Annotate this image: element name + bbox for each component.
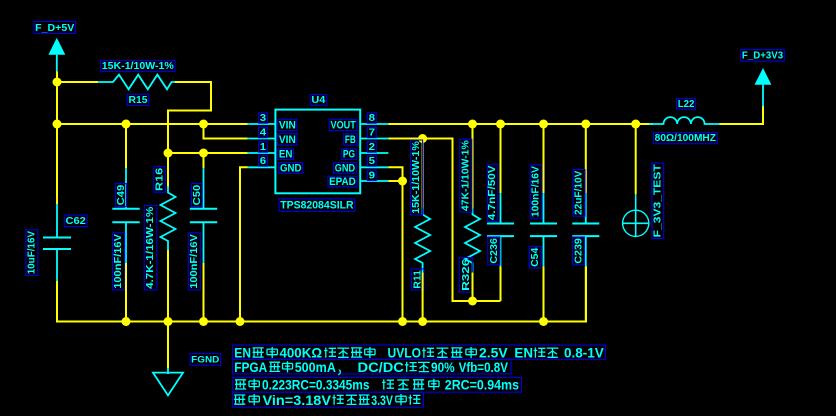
resistor R11 body: [415, 209, 430, 273]
svg-text:R326: R326: [460, 259, 472, 291]
value label 4.7nF/50V: [487, 164, 498, 221]
value label 22uF/10V: [573, 170, 585, 217]
svg-text:500mA: 500mA: [295, 359, 336, 375]
power net label F_D+3V3: [741, 50, 785, 62]
resistor R15 body: [98, 75, 175, 90]
net label F_3V3_TEST: [652, 163, 664, 239]
capacitor C49 body: [112, 168, 139, 263]
svg-text:VIN: VIN: [279, 134, 296, 146]
svg-text:Vin=3.18V: Vin=3.18V: [263, 392, 332, 408]
junction bus/C49: [122, 317, 131, 326]
wire C49 bottom: [125, 263, 127, 322]
ref label C54: [529, 247, 541, 269]
value label 47K-1/10W-1%: [460, 139, 472, 212]
junction VIN/C49: [122, 120, 131, 129]
svg-text:2: 2: [369, 142, 376, 153]
svg-text:4.7K-1/16W-1%: 4.7K-1/16W-1%: [145, 207, 156, 289]
junction VOUT/testpoint-L22: [631, 120, 640, 129]
pin 4 stub: [247, 138, 275, 140]
wire testpoint drop: [635, 124, 637, 194]
wire VIN net to pin 3: [57, 123, 248, 125]
net label FGND: [190, 354, 221, 366]
pin number 6: [259, 156, 268, 167]
ground FGND symbol: [153, 368, 183, 395]
wire C54 bottom: [543, 266, 545, 321]
junction EN/C50: [199, 149, 208, 158]
svg-text:R16: R16: [154, 168, 166, 191]
svg-text:EPAD: EPAD: [329, 176, 356, 188]
junction VOUT/C54: [539, 120, 548, 129]
svg-text:47K-1/10W-1%: 47K-1/10W-1%: [460, 140, 471, 211]
svg-text:EN: EN: [279, 149, 293, 161]
pin 5 stub: [360, 166, 388, 168]
note text line 2 FPGA estimate: [233, 359, 511, 375]
ref label L22: [677, 98, 696, 110]
svg-text:F_D+3V3: F_D+3V3: [742, 50, 783, 62]
wire R16 bottom to ground bus and FGND drop: [167, 250, 169, 369]
svg-text:FB: FB: [345, 134, 356, 146]
svg-text:4: 4: [260, 128, 267, 139]
junction bus/R11: [418, 317, 427, 326]
svg-text:C239: C239: [572, 238, 584, 264]
pin name EPAD: [328, 176, 357, 188]
pin name VOUT: [329, 119, 357, 131]
ref label C50: [191, 184, 203, 207]
pin number 5: [367, 156, 376, 167]
wire pin 4 jog: [204, 124, 248, 139]
power net label F_D+5V: [34, 22, 76, 34]
svg-text:FPGA: FPGA: [234, 359, 267, 375]
part label TPS82084SILR: [279, 199, 355, 212]
pin number 7: [367, 127, 376, 138]
svg-text:4.7nF/50V: 4.7nF/50V: [487, 165, 498, 220]
wire R11 bottom: [422, 273, 424, 322]
svg-text:PG: PG: [343, 149, 355, 161]
resistor R326 body: [465, 209, 480, 273]
junction bus/C54: [539, 317, 548, 326]
op-amp U1 — IC U4 TPS82084SILR box: [275, 110, 360, 194]
pin name PG: [342, 149, 357, 161]
wire EN net to pin 1: [168, 152, 248, 154]
pin 2 stub PG: [360, 152, 388, 154]
capacitor C236 body: [487, 193, 514, 266]
junction bus/R16: [164, 317, 173, 326]
svg-text:DC/DC: DC/DC: [358, 359, 404, 375]
wire C49 top: [125, 124, 127, 168]
svg-text:C49: C49: [115, 185, 127, 206]
wire ground bus bottom: [57, 266, 586, 321]
svg-text:100nF/16V: 100nF/16V: [189, 234, 200, 289]
pin name EN: [278, 149, 294, 161]
svg-text:3: 3: [260, 113, 267, 124]
pin number 1: [259, 142, 268, 153]
note text line 3 soft-start timing: [233, 377, 522, 393]
pin name GND (6): [279, 162, 303, 174]
wire VOUT bus: [388, 123, 653, 125]
wire C236 bottom: [500, 266, 502, 301]
svg-text:F_3V3_TEST: F_3V3_TEST: [652, 164, 663, 237]
wire C54 top: [543, 124, 545, 193]
junction EN/R16: [164, 149, 173, 158]
ref label R11: [411, 269, 423, 290]
junction VOUT/C239: [581, 120, 590, 129]
junction VIN/pin4 jog: [199, 120, 208, 129]
wire pin 9 EPAD: [388, 180, 402, 182]
svg-text:U4: U4: [311, 94, 325, 106]
value label C50 100nF/16V: [188, 233, 200, 290]
pin number 3: [259, 113, 268, 124]
pin name VIN (4): [278, 134, 297, 146]
value label 4.7K-1/16W-1%: [144, 206, 157, 291]
svg-text:5: 5: [369, 156, 376, 167]
ref label C239: [572, 237, 584, 265]
junction bus/C50: [199, 317, 208, 326]
note text line 1 EN/UVLO thresholds: [232, 345, 605, 361]
wire C239 top: [585, 124, 587, 193]
capacitor C62 body: [43, 204, 71, 281]
svg-text:9: 9: [369, 170, 376, 181]
pin 6 stub: [247, 166, 275, 168]
wire R11 top: [422, 139, 424, 209]
svg-text:EN: EN: [514, 345, 533, 361]
svg-text:3.3V: 3.3V: [371, 392, 393, 408]
svg-text:90%: 90%: [431, 359, 455, 375]
junction VOUT/R326: [468, 120, 477, 129]
wire C236 top: [500, 124, 502, 193]
svg-text:100nF/16V: 100nF/16V: [531, 166, 542, 217]
svg-text:8: 8: [369, 113, 376, 124]
junction bus/EPAD: [398, 317, 407, 326]
ref label R16: [154, 167, 166, 193]
svg-text:R15: R15: [129, 94, 148, 106]
power symbol F_D+3V3 arrow: [755, 68, 772, 106]
svg-text:VOUT: VOUT: [331, 119, 357, 131]
ref label C62: [64, 215, 87, 227]
svg-text:10uF/16V: 10uF/16V: [26, 231, 37, 275]
svg-text:L22: L22: [678, 98, 695, 110]
junction rail/R15: [53, 78, 62, 87]
wire R15 left lead: [57, 81, 98, 83]
wire FB net: [388, 139, 500, 302]
svg-text:2RC=0.94ms: 2RC=0.94ms: [445, 377, 519, 393]
svg-text:7: 7: [369, 128, 376, 139]
wire C239 bottom riser: [585, 266, 587, 321]
testpoint F_3V3_TEST symbol: [622, 194, 649, 237]
svg-text:0.8-1V: 0.8-1V: [564, 345, 604, 361]
wire R16 top: [167, 153, 169, 187]
pin name FB: [344, 134, 357, 146]
svg-text:FGND: FGND: [191, 354, 219, 365]
wire pin 6 to ground bus: [240, 167, 248, 321]
junction FBlow/R326: [468, 297, 477, 306]
pin number 8: [367, 113, 376, 124]
value label 80R/100MHZ: [654, 133, 718, 145]
junction VOUT/C236: [496, 120, 505, 129]
ref label R15: [127, 94, 148, 106]
junction FB/R11: [418, 134, 427, 143]
wire C50 bottom: [203, 263, 205, 322]
svg-text:C50: C50: [191, 185, 203, 206]
svg-text:Vfb=0.8V: Vfb=0.8V: [459, 359, 509, 375]
pin number 2: [367, 142, 376, 153]
svg-text:C54: C54: [529, 248, 541, 267]
capacitor C50 body: [190, 168, 217, 263]
ref label C49: [115, 184, 127, 207]
svg-text:80Ω/100MHZ: 80Ω/100MHZ: [655, 133, 716, 144]
power symbol F_D+5V arrow: [48, 38, 65, 72]
value label C49 100nF/16V: [113, 233, 125, 290]
wire L22 to +3V3 flag: [720, 106, 764, 124]
ref label U4: [310, 94, 326, 106]
value label 15K-1/10W-1%: [101, 60, 175, 72]
capacitor C239 body: [572, 193, 599, 266]
pin name GND (5): [334, 162, 357, 174]
pin 1 stub: [247, 152, 275, 154]
svg-text:15K-1/10W-1%: 15K-1/10W-1%: [411, 141, 422, 214]
wire pin 5 GND down: [388, 167, 402, 181]
pin 7 stub: [360, 138, 388, 140]
value label C54 100nF/16V: [530, 165, 542, 219]
svg-text:C236: C236: [488, 238, 500, 264]
svg-text:C62: C62: [66, 215, 86, 227]
svg-text:6: 6: [260, 156, 267, 167]
svg-text:15K-1/10W-1%: 15K-1/10W-1%: [102, 61, 174, 72]
inductor L22 body: [649, 117, 720, 124]
junction rail/VIN line: [53, 120, 62, 129]
wire EPAD to ground bus: [402, 181, 404, 322]
wire R15 to EN net: [168, 82, 211, 153]
pin 8 stub: [360, 123, 388, 125]
svg-text:F_D+5V: F_D+5V: [35, 22, 74, 34]
svg-text:GND: GND: [280, 162, 302, 174]
capacitor C54 body: [530, 193, 557, 266]
ref label C236: [488, 237, 500, 265]
svg-text:0.223RC=0.3345ms: 0.223RC=0.3345ms: [262, 377, 370, 393]
junction bus/pin6: [236, 317, 245, 326]
pin name VIN (3): [278, 119, 297, 131]
svg-text:GND: GND: [335, 162, 355, 174]
wire R326 bottom: [472, 273, 474, 302]
svg-text:TPS82084SILR: TPS82084SILR: [280, 200, 353, 212]
junction GND5/EPAD: [398, 177, 407, 186]
wire C50 top: [203, 153, 205, 168]
pin 3 stub: [247, 123, 275, 125]
wire left +5V rail vertical: [56, 72, 58, 205]
ref label R326: [459, 258, 472, 293]
value label 10uF/16V: [26, 230, 38, 276]
value label R11 15K-1/10W-1%: [411, 140, 423, 215]
pin number 4: [259, 127, 268, 138]
resistor R16 body: [161, 187, 176, 251]
svg-text:100nF/16V: 100nF/16V: [113, 234, 124, 289]
svg-text:22uF/10V: 22uF/10V: [574, 170, 585, 215]
pin 9 stub: [360, 180, 388, 182]
note text line 4 measured result: [232, 392, 423, 408]
wire R326 top: [472, 124, 474, 209]
pin number 9: [367, 170, 376, 181]
svg-text:1: 1: [260, 142, 267, 153]
svg-text:VIN: VIN: [279, 119, 296, 131]
